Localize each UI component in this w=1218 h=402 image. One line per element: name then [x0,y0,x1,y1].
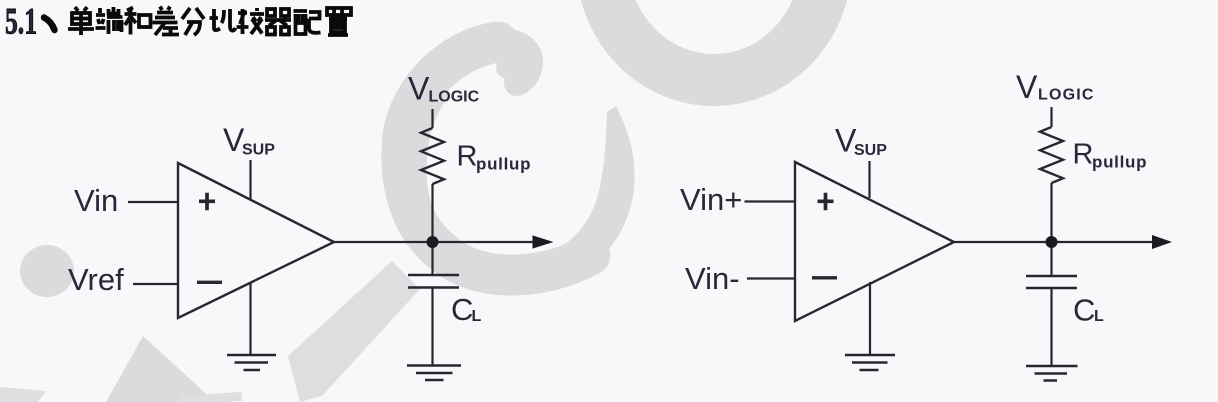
resistor R_pullup zigzag [1040,127,1063,183]
left circuit [128,109,536,380]
svg-text:R: R [457,141,478,173]
ground capacitor [1026,366,1078,381]
node junction dot left [427,236,439,248]
wire Vin [128,201,178,203]
svg-text:L: L [1094,308,1104,325]
svg-text:L: L [472,308,482,325]
op-amp U1 triangle [178,163,334,318]
minus input symbol [197,281,222,284]
char 较 [237,8,265,34]
output arrowhead left [533,235,554,248]
svg-text:pullup: pullup [1092,153,1147,172]
svg-text:Vin-: Vin- [685,261,740,296]
svg-text:V: V [408,71,430,107]
plus input symbol [818,193,834,211]
char 端 [96,7,123,34]
wire resistor bottom lead [1050,183,1052,237]
char 和 [125,8,151,35]
wire VSUP [868,161,870,198]
svg-text:Vin+: Vin+ [680,182,742,217]
plus input symbol [199,193,215,211]
svg-text:SUP: SUP [854,142,887,159]
left labels [68,71,531,328]
wire to ground from op-amp [249,284,251,356]
resistor R_pullup zigzag [421,128,444,184]
op-amp U2 triangle [795,162,954,321]
wire to ground from op-amp [869,282,871,355]
wire node to capacitor [1050,245,1052,276]
minus input symbol [812,276,837,279]
char 差 [153,7,180,36]
node junction dot right [1046,236,1058,248]
wire capacitor to ground [1050,288,1052,366]
capacitor C_L plates [1026,276,1077,288]
char 置 [327,8,351,35]
right circuit [745,107,1156,381]
wire Vin- [747,277,795,279]
wire node to capacitor [431,246,433,275]
wire Vin+ [745,200,796,202]
wire resistor top lead [1050,107,1052,127]
char 配 [294,11,321,34]
title ideographic comma [44,18,55,31]
svg-text:pullup: pullup [476,155,531,174]
wire Vref [133,283,178,285]
ground capacitor [407,366,461,381]
char 单 [68,7,94,35]
char 分 [182,8,204,35]
capacitor C_L plates [408,275,459,288]
wire VSUP [249,160,251,200]
svg-text:V: V [1016,69,1038,105]
wire resistor top lead [431,109,433,128]
svg-text:SUP: SUP [242,142,275,159]
svg-text:R: R [1073,139,1094,171]
char 器 [265,9,291,35]
output arrowhead right [1152,235,1172,249]
svg-text:C: C [1073,293,1095,328]
char 比 [210,9,236,31]
svg-text:5.1: 5.1 [5,2,37,43]
svg-text:C: C [451,292,473,327]
right labels [680,69,1147,328]
svg-text:LOGIC: LOGIC [429,89,480,106]
title group [5,2,351,43]
wire resistor bottom lead [431,184,433,238]
svg-text:LOGIC: LOGIC [1038,87,1095,104]
ground op-amp [845,355,895,370]
ground op-amp [227,355,276,370]
svg-text:Vref: Vref [68,262,124,297]
svg-text:Vin: Vin [74,183,118,218]
wire capacitor to ground [431,288,433,366]
wire output [334,241,536,243]
wire output [954,241,1155,243]
